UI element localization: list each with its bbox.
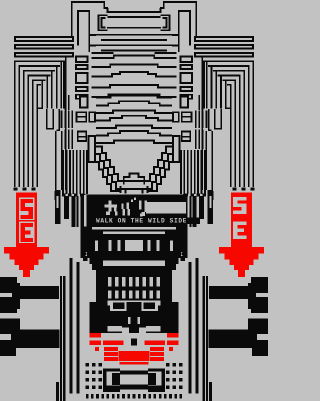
right arrow letter S gray bbox=[233, 197, 247, 200]
banner gray inset line bbox=[84, 195, 87, 227]
right half artwork (mirrored) bbox=[133, 1, 268, 401]
banner gray cursor block bbox=[146, 202, 186, 214]
left arrow letter E bbox=[19, 222, 34, 244]
banner right bar bbox=[186, 217, 200, 224]
katakana RI bbox=[139, 200, 142, 209]
banner black background bbox=[81, 195, 186, 227]
left arrow letter S bbox=[19, 197, 34, 220]
katakana BA bbox=[121, 204, 123, 210]
svg-text:WALK ON THE WILD SIDE: WALK ON THE WILD SIDE bbox=[96, 218, 187, 225]
left half artwork bbox=[0, 1, 135, 401]
katakana KA bbox=[105, 205, 118, 208]
right arrow letter E gray bbox=[233, 222, 247, 225]
